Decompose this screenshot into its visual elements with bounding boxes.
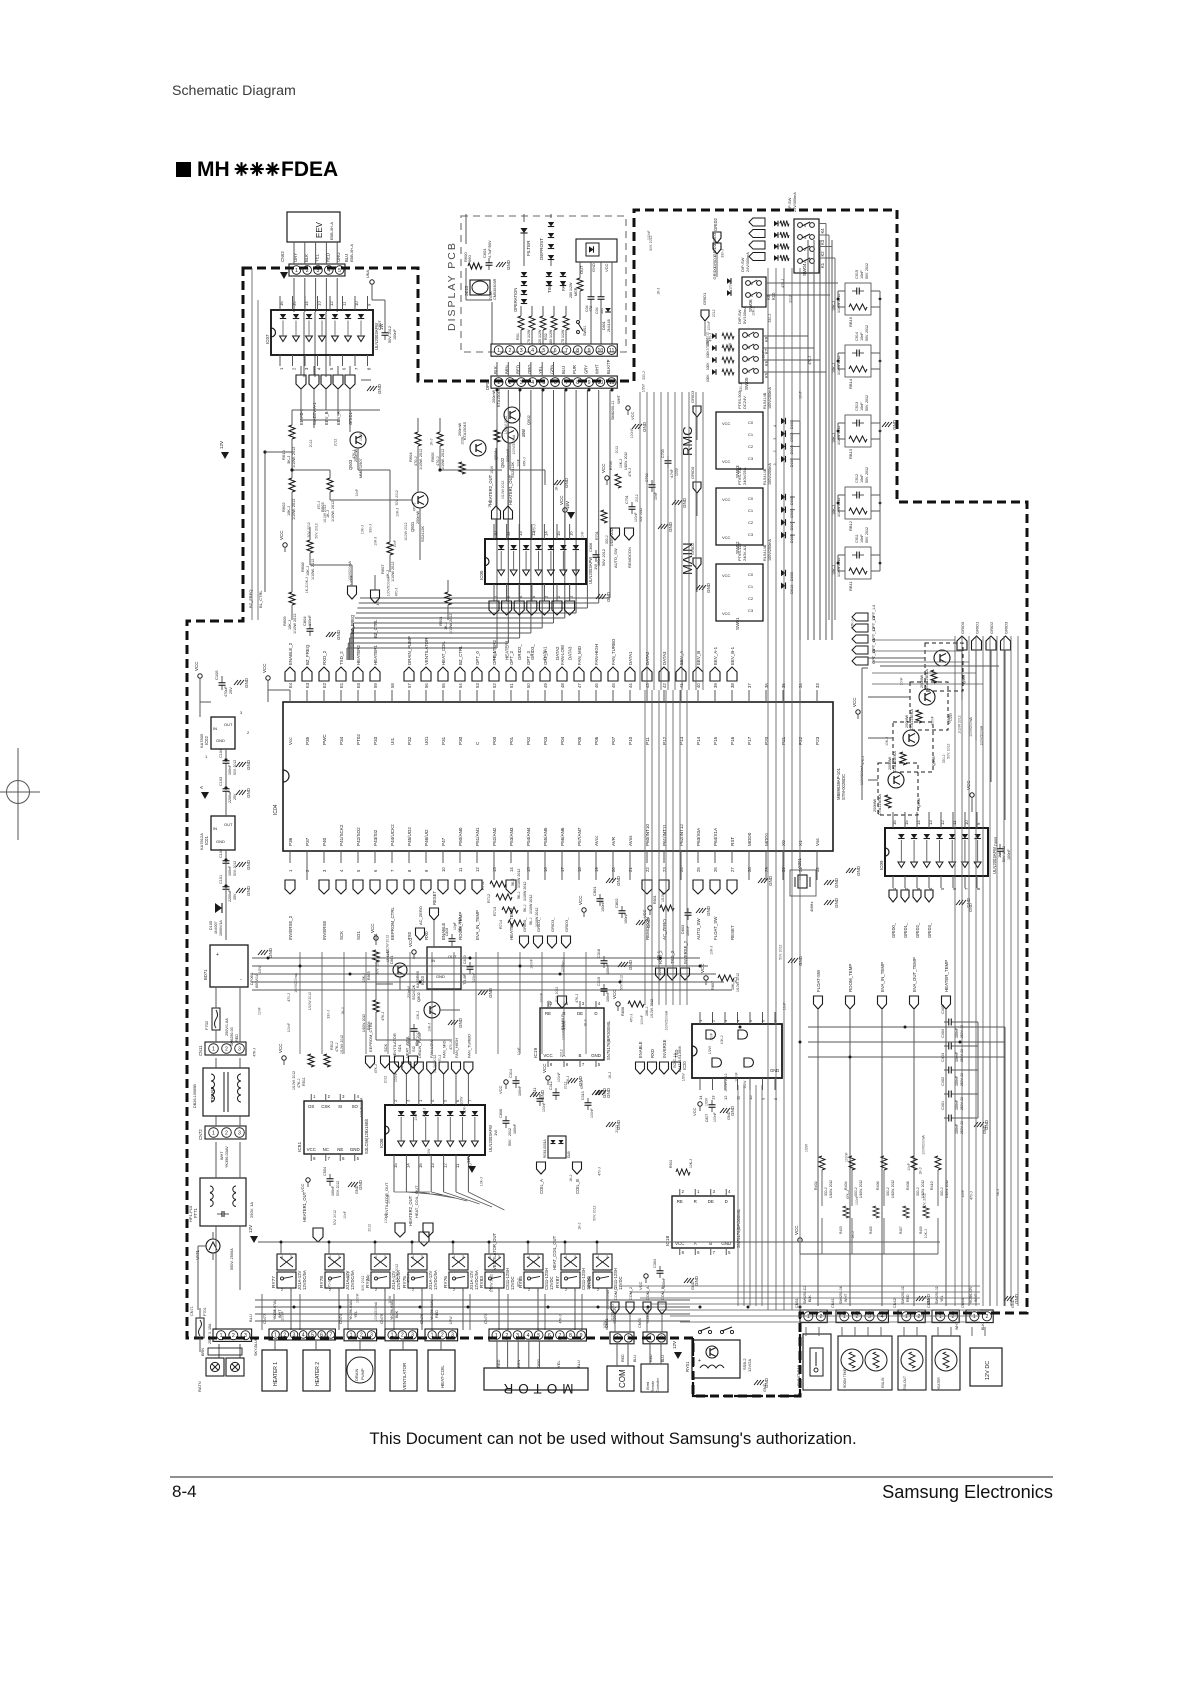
svg-text:1/10W. 2012: 1/10W. 2012 [945,1180,949,1198]
svg-text:K3: K3 [820,239,825,245]
svg-text:1K-J: 1K-J [555,483,559,490]
vcc ic51 low [306,1178,310,1182]
svg-text:EVA_IN_TEMP: EVA_IN_TEMP [880,962,885,992]
svg-text:F702: F702 [204,1020,209,1030]
gnd ic18 [684,1278,688,1283]
svg-text:R409: R409 [919,1226,923,1234]
svg-text:100V/200mA: 100V/200mA [768,539,772,561]
svg-text:CN74: CN74 [338,1313,343,1324]
svg-text:10K-J: 10K-J [428,1023,432,1032]
svg-text:100nF: 100nF [393,329,397,340]
svg-text:2012: 2012 [334,439,338,447]
vcc R608 [283,543,287,547]
svg-text:FT71: FT71 [193,1208,198,1218]
gnd c804 [326,632,330,637]
svg-text:10K-J: 10K-J [416,1011,420,1020]
flags grid mid row [520,936,529,948]
svg-text:UI1: UI1 [390,737,395,745]
svg-text:1/10W 2012: 1/10W 2012 [523,882,527,901]
svg-text:SKY-BLUE: SKY-BLUE [254,1337,258,1356]
svg-text:1/10W 2012: 1/10W 2012 [323,505,327,523]
svg-text:DTA114EKA: DTA114EKA [878,794,882,815]
bridge rectifier BD71 [210,945,248,987]
svg-text:8: 8 [569,1333,572,1339]
svg-text:470-J: 470-J [438,1055,442,1064]
load HEATER 1 [262,1350,287,1391]
gnd mcu32 [846,868,850,873]
svg-text:DTA114EKA: DTA114EKA [925,669,929,690]
transistor Q801 [393,963,407,977]
svg-text:TRANS: TRANS [210,1086,215,1102]
svg-text:SI: SI [338,1104,342,1109]
svg-text:1K-J: 1K-J [851,1231,855,1238]
svg-text:3: 3 [868,1314,871,1320]
svg-text:P10: P10 [628,736,633,745]
svg-text:VCC: VCC [278,1043,283,1053]
svg-text:100nF: 100nF [955,1051,959,1062]
svg-text:RB13: RB13 [848,448,853,459]
svg-text:HEAT-COIL: HEAT-COIL [440,1365,445,1388]
svg-text:3: 3 [451,1333,454,1339]
grid flag wires top [716,255,718,277]
svg-text:C1: C1 [748,508,754,513]
relay RY74 [371,1254,390,1270]
flag REMOCON mid [625,528,634,540]
flags below IC07 [296,375,306,389]
flags ENABLE RXD INVERSE TXD ic20 [636,1062,645,1074]
junction dots bottom [293,1306,296,1309]
svg-text:3: 3 [421,1255,423,1259]
svg-text:GND: GND [591,263,596,272]
svg-text:C808: C808 [445,928,449,936]
right bus wires [879,299,881,563]
svg-text:GND: GND [246,759,251,770]
svg-text:12VDC/5A: 12VDC/5A [350,1270,355,1290]
svg-text:2: 2 [917,1314,920,1320]
svg-text:P02: P02 [526,736,531,745]
eev signal wires down [300,389,302,420]
svg-text:IC08: IC08 [379,1138,384,1148]
svg-text:470-J: 470-J [598,1167,602,1176]
svg-text:HEATER1_OUT: HEATER1_OUT [508,474,513,505]
svg-text:VCC: VCC [604,263,609,272]
svg-text:46: 46 [594,683,599,688]
flags above IC08 [390,1062,399,1074]
svg-text:50V. 2012: 50V. 2012 [233,760,237,775]
svg-text:51: 51 [509,683,514,688]
svg-text:12VDC/5A: 12VDC/5A [474,1270,479,1290]
resistor R608 [307,540,313,553]
com wires [616,1344,618,1366]
vcc mcu [266,676,270,680]
svg-text:2012: 2012 [384,1076,388,1084]
svg-text:10K-J: 10K-J [360,525,364,534]
svg-text:100nF: 100nF [931,716,935,726]
svg-text:C3: C3 [748,456,754,461]
vcc ic09 [970,793,974,797]
svg-text:DTA114EKA: DTA114EKA [910,709,914,730]
svg-text:2: 2 [401,1333,404,1339]
svg-text:GRY: GRY [583,365,588,374]
svg-text:10K-J: 10K-J [287,506,291,516]
svg-text:EEV: EEV [315,221,324,238]
svg-text:P03: P03 [543,736,548,745]
svg-text:2012: 2012 [712,309,716,317]
relay sub-board dashed border [693,1313,800,1396]
svg-text:C312: C312 [549,1081,553,1090]
svg-text:2012: 2012 [563,1081,567,1089]
svg-text:P32: P32 [407,736,412,745]
mcu bottom pins [289,851,291,863]
svg-text:7: 7 [565,348,568,354]
svg-text:RESET: RESET [730,925,735,940]
gnd c101 [236,888,240,893]
svg-text:3: 3 [290,1255,292,1259]
capacitor C806 ic05 [595,550,597,555]
svg-text:Remote: Remote [651,1381,655,1392]
svg-text:R404: R404 [844,1181,848,1190]
svg-text:KA7805: KA7805 [199,733,204,748]
resistor R807 [718,975,734,981]
svg-text:IC05: IC05 [479,570,484,580]
left vertical bus [251,268,253,620]
svg-text:BLU: BLU [561,366,566,374]
svg-text:GND: GND [834,877,839,888]
svg-text:10pF: 10pF [453,922,457,930]
svg-text:12VDC/5A: 12VDC/5A [302,1270,307,1290]
svg-text:C3: C3 [748,532,754,537]
svg-text:C316: C316 [597,949,601,958]
svg-text:GRID2_: GRID2_ [915,922,920,938]
svg-text:4: 4 [375,1255,377,1259]
svg-text:470-J: 470-J [414,456,418,466]
load VENTILATOR [390,1350,417,1391]
svg-text:3: 3 [238,1130,241,1136]
svg-text:12: 12 [723,1095,728,1100]
svg-text:10: 10 [597,348,603,354]
svg-text:P53/AN3: P53/AN3 [509,827,514,846]
svg-text:C914: C914 [855,332,859,341]
gnd ry01 [754,1380,758,1385]
vcc q904 [856,710,860,714]
svg-text:RB14: RB14 [848,378,853,389]
svg-text:TXD_2: TXD_2 [670,950,675,964]
svg-text:100nF: 100nF [955,1123,959,1134]
svg-text:9: 9 [588,348,591,354]
capacitor C809 [999,844,1001,849]
capacitor C808 [451,934,453,939]
svg-text:VCC: VCC [722,497,731,502]
svg-text:2: 2 [232,1333,235,1339]
relay RY85 [524,1254,543,1270]
svg-text:C703: C703 [661,449,665,458]
svg-text:GRID2: GRID2 [989,621,994,634]
svg-text:MGR: MGR [574,287,578,296]
svg-text:GND: GND [616,875,621,886]
svg-text:600V/1A: 600V/1A [255,973,259,988]
svg-text:2: 2 [819,1314,822,1320]
svg-text:470-J: 470-J [517,1278,521,1287]
gnd c104 [236,762,240,767]
svg-text:1/2W: 1/2W [461,436,465,445]
svg-text:BLU: BLU [248,1314,253,1322]
capacitor C104 [225,756,227,761]
svg-text:10nF: 10nF [860,534,864,543]
svg-text:IN: IN [213,826,217,831]
svg-text:VCC: VCC [700,963,705,973]
svg-text:59: 59 [373,683,378,688]
svg-text:GND: GND [682,497,687,508]
svg-text:ULN2003AFW: ULN2003AFW [488,1125,493,1152]
svg-text:2: 2 [283,1332,286,1338]
svg-text:R408: R408 [906,1181,910,1190]
svg-text:4: 4 [327,268,330,274]
svg-text:2: 2 [855,1314,858,1320]
svg-text:50V. 2012: 50V. 2012 [336,1181,340,1196]
flag ENABLE-3 [558,996,567,1008]
svg-text:34: 34 [798,683,803,688]
svg-text:22: 22 [645,867,650,872]
svg-text:50V. 2012: 50V. 2012 [865,263,869,279]
svg-text:SS2412K: SS2412K [421,525,425,542]
svg-text:P36: P36 [288,837,293,846]
svg-text:47: 47 [577,683,582,688]
gnd ic05 [596,594,600,599]
svg-text:33: 33 [815,683,820,688]
svg-text:50V. 2012: 50V. 2012 [865,395,869,411]
svg-text:GND: GND [642,421,647,432]
svg-text:C401: C401 [941,1101,945,1110]
svg-text:47K-J: 47K-J [406,1274,410,1283]
heater out labels [492,506,501,519]
gnd ic51 [348,1182,352,1187]
svg-text:Vcc: Vcc [288,737,293,745]
svg-text:GND: GND [377,383,382,394]
svg-text:2012: 2012 [367,1224,371,1232]
gnd ic19b [592,1090,596,1095]
svg-text:P31: P31 [441,736,446,745]
svg-text:R902: R902 [669,1160,673,1168]
resistor R609 [289,592,295,605]
svg-text:10K-J: 10K-J [924,1229,928,1238]
svg-text:D: D [725,1199,728,1204]
svg-text:FAN_MID: FAN_MID [442,1041,447,1058]
svg-text:C807: C807 [377,320,382,330]
svg-text:AUTO_SW: AUTO_SW [696,918,701,940]
resistor R610 [289,425,295,439]
svg-text:C104: C104 [219,749,223,758]
gnd mcu 21 [606,878,610,883]
svg-text:11: 11 [609,348,614,354]
gnd below dp01 [632,424,636,429]
svg-text:1K-J: 1K-J [584,1019,588,1026]
svg-text:COM_2: COM_2 [629,1287,633,1300]
svg-text:IC09: IC09 [879,860,884,870]
svg-text:P45/UO2: P45/UO2 [407,827,412,846]
svg-text:SM6250-02: SM6250-02 [935,1286,939,1304]
svg-text:ULN2003AFW: ULN2003AFW [992,847,997,874]
svg-text:GND: GND [244,677,249,688]
svg-text:VCC: VCC [852,697,857,707]
svg-text:GND: GND [350,1147,360,1152]
transistor Q905 with dashed box [893,722,933,772]
svg-text:HP1-P10: HP1-P10 [188,1205,193,1222]
svg-text:TO-8F: TO-8F [463,973,467,985]
svg-text:AVR: AVR [611,836,616,846]
svg-text:GND: GND [628,959,633,970]
svg-text:100nF: 100nF [624,913,628,924]
svg-text:50V. 2012: 50V. 2012 [865,527,869,543]
svg-text:330-J: 330-J [562,957,566,966]
svg-text:C04: C04 [595,307,599,314]
svg-text:470-J: 470-J [413,502,417,511]
svg-text:1K-J: 1K-J [444,622,448,630]
ic IC05 ULN2003APW [485,539,586,584]
svg-text:1K-J: 1K-J [996,1189,1000,1196]
svg-text:R602: R602 [281,502,286,512]
svg-text:10K-J: 10K-J [306,566,310,576]
flag GRID2 main [693,558,701,569]
svg-text:DP01: DP01 [485,379,490,390]
svg-text:56: 56 [424,683,429,688]
svg-text:RB11: RB11 [848,581,853,591]
LED group OPERATION [521,272,527,277]
svg-text:2: 2 [441,1333,444,1339]
svg-text:14: 14 [698,1095,703,1100]
svg-text:GND: GND [768,875,773,886]
svg-text:200MW: 200MW [905,715,909,728]
gnd ic09 [956,900,960,905]
svg-text:X1: X1 [798,840,803,846]
ic IC20 D74LS139A [692,1024,782,1078]
svg-text:1/2W: 1/2W [427,1148,431,1157]
main board dashed border [187,210,1027,1396]
switch SW01 display [577,321,580,324]
svg-text:TXD: TXD [674,1050,679,1058]
gnd bd71 [258,950,262,955]
svg-text:100nF: 100nF [707,321,711,331]
LED group DEFROST [548,222,554,227]
svg-text:C0: C0 [748,420,754,425]
flag GRID0 main [693,482,701,493]
svg-text:R: R [694,1199,697,1204]
svg-text:C105: C105 [214,670,219,680]
svg-text:C802: C802 [614,898,619,908]
12V DC box [970,1348,1002,1386]
svg-text:330-J: 330-J [854,1187,858,1196]
svg-text:2200uF: 2200uF [228,790,232,803]
svg-text:CN77: CN77 [262,1313,267,1324]
svg-text:5: 5 [537,1333,540,1339]
svg-text:11: 11 [458,867,463,872]
svg-text:R403: R403 [839,1226,843,1234]
svg-text:26: 26 [713,867,718,872]
svg-text:100nF: 100nF [557,1072,561,1082]
caps C311 C312 C313 [539,1094,541,1099]
svg-text:100nF: 100nF [287,1023,291,1033]
svg-text:10K-J: 10K-J [689,1159,693,1168]
misc connection wires [465,214,467,216]
svg-text:44: 44 [628,683,633,688]
svg-text:P33: P33 [373,736,378,745]
svg-text:50V. 2012: 50V. 2012 [555,987,559,1002]
arrow A [201,792,209,799]
svg-text:1/10W. 2012: 1/10W. 2012 [340,1035,344,1054]
capacitor C05 [600,292,602,297]
svg-text:SCK: SCK [383,1043,388,1052]
svg-text:DRAIN_PUMP: DRAIN_PUMP [407,636,412,665]
svg-text:GND: GND [1011,1299,1015,1308]
resistors R403-R409 diagonal [843,1206,849,1218]
svg-text:VCC: VCC [722,573,731,578]
svg-text:GND: GND [763,1383,767,1392]
svg-text:330-J: 330-J [824,1187,828,1196]
svg-text:330-J: 330-J [940,1187,944,1196]
svg-text:R609: R609 [282,616,287,626]
flag AUTO_SW mid [611,528,620,540]
svg-text:470-J: 470-J [970,1191,974,1200]
svg-text:CN11: CN11 [198,1045,203,1056]
svg-text:1/10W 2012: 1/10W 2012 [449,614,453,634]
svg-text:4MHz: 4MHz [809,902,814,912]
svg-text:COIL_A: COIL_A [539,1179,544,1194]
svg-text:RY76: RY76 [443,1276,449,1288]
capacitor C810 [469,962,471,967]
svg-text:C0: C0 [748,496,754,501]
svg-text:VENTILATOR_OUT: VENTILATOR_OUT [492,1232,497,1270]
mid band horizontal wires [252,957,700,959]
svg-text:4: 4 [453,1255,455,1259]
svg-text:50: 50 [526,683,531,688]
svg-text:100K: 100K [706,374,710,382]
svg-text:GRID2_: GRID2_ [517,644,522,660]
svg-text:GRID2: GRID2 [690,542,695,555]
svg-text:VENTILATOR: VENTILATOR [424,638,429,665]
svg-text:C913: C913 [855,402,859,411]
fuse F701 and CN71 [196,1318,204,1338]
svg-text:C311: C311 [533,1088,537,1096]
svg-text:39: 39 [713,683,718,688]
svg-text:48: 48 [560,683,565,688]
svg-text:GRID0: GRID0 [960,621,965,634]
svg-text:10nF: 10nF [517,459,521,467]
svg-text:470-J: 470-J [629,1014,633,1023]
svg-text:+: + [698,1358,701,1364]
svg-text:100nF: 100nF [308,615,312,626]
vcc ic05 [563,508,567,512]
switch ry01 [698,1330,701,1333]
resistor R701 [601,510,607,523]
svg-text:BL_CTRL: BL_CTRL [258,590,263,608]
svg-text:250V. 3. 15A: 250V. 3. 15A [208,1323,212,1344]
svg-text:38: 38 [730,683,735,688]
svg-text:12V/2A: 12V/2A [747,1359,752,1372]
svg-text:GRID1_: GRID1_ [903,922,908,938]
svg-text:1K-J: 1K-J [734,977,738,984]
svg-text:25: 25 [696,867,701,872]
svg-text:HEAT_COIL_OUT: HEAT_COIL_OUT [414,1185,419,1218]
svg-text:SD1: SD1 [397,1043,402,1052]
resistor near Q902 [494,430,500,442]
svg-text:D803: D803 [681,925,685,934]
svg-text:1K-J: 1K-J [430,438,434,445]
flag BZ_FREQ [348,586,357,599]
svg-text:1/2W: 1/2W [728,342,732,351]
svg-text:37: 37 [747,683,752,688]
svg-text:EEV_A-1: EEV_A-1 [713,646,718,665]
svg-text:47K-J: 47K-J [628,468,632,477]
svg-text:GND: GND [856,865,861,876]
